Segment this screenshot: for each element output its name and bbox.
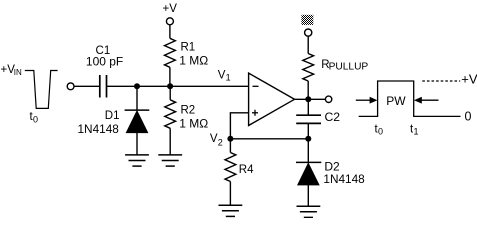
- svg-text:1N4148: 1N4148: [78, 122, 120, 136]
- node V2 label: [210, 133, 223, 148]
- svg-text:1 MΩ: 1 MΩ: [179, 116, 208, 130]
- input terminal: [67, 83, 74, 90]
- node t0 label (input): [30, 111, 39, 124]
- node t0 label (waveform): [375, 123, 384, 136]
- ground under D1: [125, 155, 149, 166]
- wire Rpullup to output node: [307, 81, 309, 99]
- wire op-amp output: [295, 98, 326, 100]
- PW width arrows: [356, 94, 439, 108]
- resistor R4: [225, 153, 254, 182]
- junction C2/D2 node: [305, 136, 311, 142]
- pullup terminal: [305, 29, 312, 36]
- ground under R4: [219, 205, 243, 216]
- svg-text:1: 1: [414, 127, 419, 137]
- node +VIN label: [1, 64, 23, 77]
- svg-text:R1: R1: [181, 42, 196, 54]
- output pulse waveform: [359, 81, 461, 116]
- wire C1 to op-amp inverting input: [107, 85, 249, 87]
- wire terminal to Rpullup: [307, 36, 309, 53]
- wire C2 to D2 node: [307, 123, 309, 138]
- wire node to D2: [307, 139, 309, 163]
- svg-text:IN: IN: [14, 68, 22, 77]
- svg-text:D1: D1: [105, 110, 120, 122]
- wire output node to C2: [307, 99, 309, 115]
- wire input terminal to C1: [74, 85, 100, 87]
- wire D1 to ground: [136, 133, 138, 155]
- svg-text:PULLUP: PULLUP: [329, 61, 369, 72]
- node V1 label: [218, 69, 231, 82]
- supply rail (hatched): [301, 15, 313, 25]
- junction output node: [305, 96, 311, 102]
- wire R2 to ground: [169, 128, 171, 155]
- svg-text:1 MΩ: 1 MΩ: [179, 54, 208, 68]
- svg-text:1: 1: [226, 72, 231, 82]
- junction at D1: [134, 83, 140, 89]
- wire D2 to ground: [307, 185, 309, 206]
- +V terminal: [166, 18, 173, 25]
- svg-text:V: V: [210, 133, 218, 145]
- wire to op-amp non-inverting input: [230, 113, 248, 139]
- op-amp U1: [249, 73, 295, 125]
- wire V2 to C2/D2 node: [230, 138, 308, 140]
- input pulse waveform: [25, 71, 58, 109]
- junction V2: [227, 136, 233, 142]
- svg-text:R4: R4: [239, 164, 254, 176]
- diode D2: [296, 159, 365, 186]
- resistor R1: [165, 38, 209, 67]
- svg-text:PW: PW: [386, 94, 406, 108]
- resistor RPULLUP: [303, 54, 369, 82]
- wire V2 to R4: [229, 139, 231, 153]
- dashed +V level line: [422, 80, 460, 82]
- svg-text:+V: +V: [461, 72, 477, 87]
- diode D1: [78, 110, 150, 136]
- capacitor C1: [86, 45, 123, 98]
- svg-text:0: 0: [33, 114, 38, 124]
- svg-text:1N4148: 1N4148: [323, 172, 365, 186]
- resistor R2: [165, 100, 208, 131]
- svg-text:R2: R2: [181, 105, 196, 117]
- wire +V terminal to R1: [169, 25, 171, 38]
- output terminal: [325, 96, 331, 102]
- svg-text:0: 0: [378, 127, 383, 137]
- wire junction to R2: [169, 86, 171, 100]
- ground under R2: [158, 155, 182, 166]
- svg-text:2: 2: [218, 138, 223, 148]
- svg-text:100 pF: 100 pF: [86, 55, 123, 69]
- node t1 label (waveform): [410, 123, 419, 136]
- ground under D2: [297, 206, 321, 217]
- svg-text:0: 0: [465, 110, 472, 124]
- wire R1 to junction: [169, 67, 171, 86]
- svg-text:+V: +V: [163, 3, 178, 15]
- capacitor C2: [296, 110, 340, 124]
- svg-text:V: V: [218, 69, 226, 81]
- wire junction to D1: [136, 86, 138, 110]
- junction at R1/R2: [167, 83, 173, 89]
- svg-text:C2: C2: [325, 110, 341, 124]
- wire R4 to ground: [229, 182, 231, 206]
